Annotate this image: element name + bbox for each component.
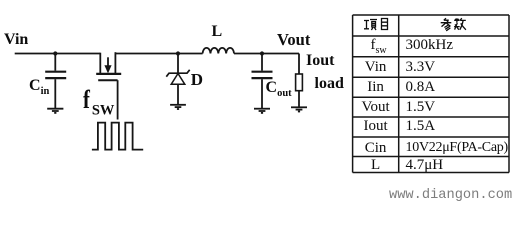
wire: gate lead down to switching waveform <box>117 80 119 119</box>
transistor Q1: body arrow head (points down) <box>104 65 111 73</box>
transistor Q1: right terminal <box>114 52 116 73</box>
table cell: 0.8A <box>406 80 436 95</box>
inductor L: 4-hump coil <box>203 48 234 54</box>
table cell: 4.7uH <box>406 158 444 173</box>
wire: Cout top lead <box>261 54 263 71</box>
table cell: Vin row label <box>353 60 399 75</box>
diode D: triangle outline (anode below) <box>171 74 185 85</box>
ground: below diode <box>170 105 186 109</box>
table cell: 3.3V <box>406 60 436 75</box>
label Vin (input net) <box>4 32 28 48</box>
table header: CJK glyphs 参数 (drawn strokes) <box>441 18 466 31</box>
wire: diode top lead <box>177 54 179 74</box>
table cell: Iout row label <box>353 119 399 134</box>
wire: Cin top lead <box>54 54 56 71</box>
label D (diode) <box>191 71 203 88</box>
capacitor Cout: bottom plate <box>252 77 273 79</box>
transistor Q1: body arrow shaft <box>107 57 109 66</box>
table cell: Iin row label <box>353 80 399 95</box>
wire: load bottom lead <box>298 91 300 107</box>
table header: CJK glyphs 项目 (drawn strokes) <box>364 19 388 31</box>
table cell: 300kHz <box>406 38 454 53</box>
ground: below load <box>291 107 307 111</box>
waveform: fsw gate square wave, 3 pulses <box>92 123 143 150</box>
label Cin (input capacitor) <box>29 78 49 94</box>
table cell: L row label <box>353 158 399 173</box>
node B: junction dot at diode tap <box>176 51 180 55</box>
table cell: Vout row label <box>353 100 399 115</box>
wire: Cout bottom lead <box>261 79 263 108</box>
label L (inductor) <box>212 24 223 40</box>
table cell: Cin row label <box>353 141 399 156</box>
node C: junction dot at Cout tap <box>260 51 264 55</box>
table cell: 1.5A <box>406 119 436 134</box>
wire: rail from MOSFET to inductor <box>115 53 202 55</box>
table cell: 10V22uF(PA-Cap) <box>406 141 508 155</box>
watermark www.diangon.com <box>389 189 512 203</box>
transistor Q1: gate bar <box>98 79 117 81</box>
ground: below Cout <box>254 109 270 113</box>
label Cout (output capacitor) <box>266 80 292 96</box>
label Vout (output net) <box>277 32 310 49</box>
ground: below Cin <box>47 109 63 113</box>
transistor Q1: channel bar <box>96 73 121 75</box>
wire: main input rail from Vin to MOSFET <box>15 53 101 55</box>
table grid: outer border and cell rules <box>353 15 509 173</box>
transistor Q1 (PMOS switch): left terminal <box>99 53 101 73</box>
table cell: 1.5V <box>406 100 436 115</box>
wire: rail from inductor to load corner <box>234 53 299 55</box>
node A: junction dot at Cin tap <box>53 51 57 55</box>
wire: diode bottom lead <box>177 84 179 104</box>
capacitor Cout: top plate <box>252 71 273 73</box>
wire: output corner down to load <box>298 54 300 75</box>
label fsw (switching frequency at gate) <box>83 86 114 113</box>
wire: Cin bottom lead <box>54 79 56 108</box>
capacitor Cin: top plate <box>45 71 66 73</box>
diode D (zener): cathode bar with bent ends <box>166 70 189 77</box>
label load (load resistor) <box>315 76 344 92</box>
resistor load: rectangle body <box>296 74 303 91</box>
capacitor Cin: bottom plate <box>45 77 66 79</box>
label Iout (output current) <box>306 53 334 69</box>
table cell: fsw row label <box>356 38 402 53</box>
